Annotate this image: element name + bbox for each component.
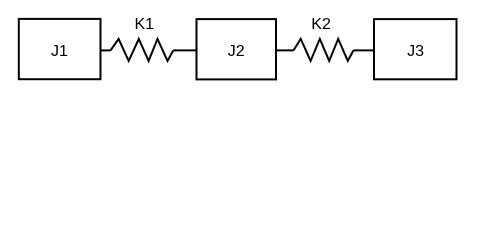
svg-text:J2: J2 [228, 43, 245, 60]
spring K1 [111, 16, 174, 61]
svg-text:K1: K1 [135, 16, 155, 33]
spring K2 [294, 16, 354, 61]
svg-text:J3: J3 [407, 43, 424, 60]
svg-text:J1: J1 [51, 43, 68, 60]
wire: K1 to J2 lead [173, 49, 196, 51]
wire: J2 right lead [276, 49, 294, 51]
svg-text:K2: K2 [311, 16, 331, 33]
mass block J2 [197, 19, 277, 79]
wire: J1 right lead [101, 49, 111, 51]
mass block J1 [19, 19, 101, 79]
mass block J3 [374, 19, 457, 79]
wire: K2 to J3 lead [354, 49, 375, 51]
